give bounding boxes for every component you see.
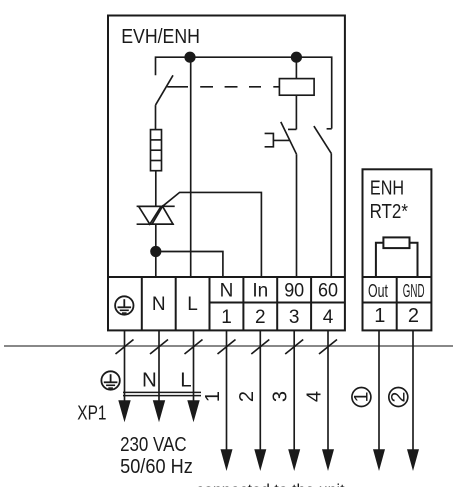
svg-text:90: 90 (284, 281, 304, 302)
svg-text:N: N (220, 281, 234, 302)
svg-text:Out: Out (368, 281, 388, 301)
svg-text:4: 4 (323, 307, 334, 328)
svg-text:3: 3 (270, 391, 292, 402)
svg-text:GND: GND (403, 281, 425, 301)
svg-text:N: N (152, 294, 166, 315)
svg-text:50/60 Hz: 50/60 Hz (120, 455, 193, 478)
svg-text:L: L (187, 294, 198, 315)
svg-text:2: 2 (236, 391, 258, 402)
svg-text:2: 2 (255, 307, 266, 328)
svg-text:ENH: ENH (370, 177, 404, 199)
svg-text:1: 1 (350, 392, 372, 403)
svg-text:1: 1 (374, 305, 385, 327)
svg-text:RT2*: RT2* (370, 201, 409, 223)
svg-text:XP1: XP1 (77, 403, 106, 425)
svg-text:connected to the unit: connected to the unit (196, 482, 345, 487)
svg-text:1: 1 (202, 391, 224, 402)
svg-text:L: L (180, 368, 191, 391)
svg-text:EVH/ENH: EVH/ENH (121, 25, 200, 48)
svg-text:In: In (252, 281, 268, 302)
svg-text:N: N (142, 368, 157, 391)
svg-text:230 VAC: 230 VAC (120, 433, 187, 456)
svg-text:3: 3 (289, 307, 300, 328)
svg-text:60: 60 (318, 281, 338, 302)
svg-text:1: 1 (221, 307, 232, 328)
svg-text:2: 2 (387, 392, 409, 403)
svg-text:4: 4 (304, 391, 326, 402)
svg-text:2: 2 (408, 305, 419, 327)
